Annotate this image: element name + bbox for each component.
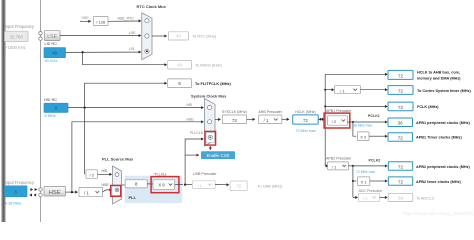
svg-text:Input Frequency: Input Frequency — [5, 24, 36, 29]
svg-text:8 MHz: 8 MHz — [45, 113, 56, 118]
oscillator HSE box — [44, 187, 66, 196]
wire HSI to system clock mux — [68, 107, 201, 109]
wire HSE to prediv — [66, 191, 76, 193]
output box APB2 timer 72 — [388, 177, 412, 185]
bus AHB vertical — [324, 74, 326, 166]
wire system mux output — [215, 118, 218, 120]
svg-text:Enable CSS: Enable CSS — [207, 153, 230, 158]
ADC prescaler dropdown /2 — [358, 193, 379, 201]
To USB value box — [230, 181, 247, 191]
HSE pin arrows out — [30, 188, 33, 191]
svg-text:PLL: PLL — [129, 195, 137, 200]
HSE pin connector circles — [39, 188, 42, 191]
svg-text:APB2 timer clocks (MHz): APB2 timer clocks (MHz) — [416, 180, 461, 184]
HSE input frequency box 8 — [5, 186, 28, 197]
svg-text:72 MHz max: 72 MHz max — [296, 129, 316, 133]
left rail vertical line — [40, 0, 42, 222]
svg-text:To FLITFCLK (MHz): To FLITFCLK (MHz) — [195, 81, 232, 86]
oscillator LSE box — [45, 31, 61, 41]
svg-text:32.768: 32.768 — [10, 35, 24, 40]
svg-text:APB2 peripheral clocks (MHz): APB2 peripheral clocks (MHz) — [416, 165, 471, 169]
wire SYSCLK to AHB prescaler — [247, 118, 253, 120]
svg-text:To RTC (KHz): To RTC (KHz) — [192, 33, 217, 38]
svg-text:/ 1: / 1 — [197, 183, 202, 188]
APB1 prescaler dropdown /2 — [328, 116, 348, 125]
svg-text:40: 40 — [176, 34, 181, 39]
svg-text:72: 72 — [398, 105, 404, 110]
wire AHB to HCLK — [282, 118, 287, 120]
wire branch to X1 — [353, 180, 356, 182]
output box cortex timer 72 — [388, 86, 413, 95]
HCLK value box 72 — [293, 115, 319, 124]
svg-text:LSE: LSE — [129, 31, 136, 35]
PLL mux input HSI radio — [115, 173, 119, 177]
svg-text:APB1 peripheral clocks (MHz): APB1 peripheral clocks (MHz) — [416, 121, 471, 125]
multiplier X1 box — [358, 177, 370, 186]
wire HCLK to bus — [318, 118, 323, 120]
output box PCLK1 36 — [388, 118, 413, 127]
AHB prescaler dropdown /1 — [259, 115, 282, 124]
HSE pin arrows in — [29, 193, 32, 196]
wire HSE stub to /128 — [80, 20, 89, 22]
svg-text:AHB Prescaler: AHB Prescaler — [258, 110, 282, 114]
svg-text:72 MHz max: 72 MHz max — [356, 170, 375, 174]
oscillator HSI box 8 — [44, 103, 68, 112]
svg-text:HSE: HSE — [82, 16, 90, 20]
svg-text:36: 36 — [398, 196, 403, 201]
junction bus FCLK row — [324, 105, 326, 107]
svg-text:USB Prescaler: USB Prescaler — [193, 172, 217, 176]
arrow mux down to Enable CSS — [209, 146, 211, 147]
oscillator LSI box 40 — [44, 48, 66, 58]
PLL container block — [125, 176, 183, 203]
wire PLL mux output — [122, 184, 126, 186]
svg-text:8: 8 — [55, 106, 58, 111]
svg-text:36: 36 — [398, 121, 404, 126]
PLL mux input HSE radio selected — [112, 186, 120, 195]
wire X1 to APB2 timer output — [370, 180, 385, 182]
USB prescaler dropdown /1 disabled — [192, 181, 215, 189]
svg-text:LSI RC: LSI RC — [45, 41, 58, 46]
divider HSE /1 dropdown — [79, 187, 103, 196]
svg-text:X 1: X 1 — [361, 180, 368, 185]
svg-text:72: 72 — [398, 135, 404, 140]
svg-text:/ 1: / 1 — [332, 164, 337, 169]
junction bus cortex row — [324, 89, 326, 91]
svg-text:To USB (MHz): To USB (MHz) — [258, 183, 284, 188]
highlight red box system mux PLLCLK — [205, 131, 216, 145]
output box PCLK2 72 — [388, 162, 412, 171]
SYSCLK value box 72 — [222, 115, 246, 124]
svg-text:72: 72 — [398, 164, 404, 169]
svg-text:APB2 Prescaler: APB2 Prescaler — [326, 156, 352, 160]
svg-text:72: 72 — [398, 73, 404, 78]
junction HSE — [71, 191, 73, 193]
wire X2 to APB1 timer output — [369, 135, 385, 137]
svg-text:HSI: HSI — [187, 103, 193, 107]
wire HSI riser to FLITFCLK — [85, 83, 165, 107]
junction APB1 branch — [352, 121, 354, 123]
wire to Enable CSS button — [185, 154, 197, 156]
wire PLLCLK riser to system clock mux — [185, 139, 201, 185]
left panel edge strip — [1, 0, 6, 222]
wire USB prescaler to To USB box — [215, 184, 227, 186]
output box ADC 36 — [388, 193, 412, 201]
wire HSE riser to system clock mux — [72, 122, 201, 192]
wire /128 to RTC mux — [108, 20, 139, 22]
wire LSE to RTC mux — [60, 35, 139, 37]
svg-text:System Clock Mux: System Clock Mux — [191, 93, 227, 98]
svg-text:72: 72 — [303, 118, 309, 123]
output box HCLK AHB 72 — [388, 70, 413, 79]
wire LSI to IWDG — [83, 52, 165, 64]
wire /2 to PLL mux — [98, 173, 110, 175]
system mux input HSI radio — [208, 105, 212, 109]
svg-text:HCLK (MHz): HCLK (MHz) — [295, 110, 315, 114]
svg-text:FCLK (MHz): FCLK (MHz) — [417, 105, 439, 109]
svg-text:RTC Clock Mux: RTC Clock Mux — [137, 4, 167, 9]
wire bus to cortex prescaler — [325, 89, 332, 91]
wire cortex prescaler to output — [360, 89, 385, 91]
svg-text:36 MHz max: 36 MHz max — [353, 124, 372, 128]
wire RTC mux output — [152, 35, 165, 37]
svg-text:HSE: HSE — [49, 190, 61, 196]
wire ADC prescaler to output — [380, 196, 385, 198]
svg-text:72: 72 — [398, 88, 404, 93]
svg-text:PCLK1: PCLK1 — [368, 114, 380, 118]
svg-text:To IWDG (KHz): To IWDG (KHz) — [195, 62, 223, 67]
wire branch to ADC prescaler — [353, 196, 356, 198]
svg-text:HSE: HSE — [102, 183, 110, 187]
output box APB1 timer 72 — [388, 133, 413, 142]
To RTC value box — [169, 32, 189, 40]
multiplier X2 box — [357, 132, 369, 141]
svg-text:72: 72 — [236, 184, 241, 189]
svg-text:40 KHz: 40 KHz — [45, 58, 58, 63]
svg-text:memory and DMA (MHz): memory and DMA (MHz) — [417, 76, 461, 80]
svg-text:LSE: LSE — [47, 34, 57, 40]
svg-text:40: 40 — [52, 51, 58, 56]
svg-text:HSE_RTC: HSE_RTC — [118, 16, 135, 20]
svg-text:/ 1: / 1 — [264, 118, 269, 123]
wire bus corner to APB2 prescaler — [325, 165, 326, 167]
wire PLL output — [175, 184, 183, 186]
svg-text:PCLK2: PCLK2 — [369, 159, 381, 163]
svg-text:/ 2: / 2 — [332, 119, 337, 124]
PLLMul dropdown X 9 — [153, 180, 175, 190]
cortex prescaler dropdown /1 — [335, 86, 361, 94]
mux RTC trapezoid — [142, 13, 152, 60]
svg-text:To Cortex System timer (MHz): To Cortex System timer (MHz) — [417, 89, 471, 93]
system mux PLLCLK selected radio — [206, 133, 215, 143]
wire APB1 branch to X2 — [353, 122, 356, 136]
PLL input value box 8 — [125, 180, 147, 188]
wire bus to HCLK AHB output — [325, 73, 385, 75]
highlight red box PLLMul — [151, 177, 179, 193]
To IWDG value box — [168, 61, 192, 70]
svg-text:0-1000 KHz: 0-1000 KHz — [4, 45, 26, 50]
svg-text:HSI: HSI — [102, 169, 108, 173]
wire APB2 branch down — [352, 166, 354, 198]
junction PLLCLK — [184, 183, 186, 185]
svg-text:4-16 MHz: 4-16 MHz — [5, 200, 22, 205]
divider HSI /2 box — [86, 170, 98, 179]
wire LSI to RTC mux — [66, 51, 140, 53]
svg-text:/ 128: / 128 — [96, 20, 106, 25]
svg-text:SYSCLK (MHz): SYSCLK (MHz) — [222, 110, 247, 114]
junction APB2 branch — [352, 165, 354, 167]
svg-text:LSI: LSI — [129, 47, 134, 51]
wire APB2 prescaler to PCLK2 — [348, 165, 385, 167]
svg-text:X 2: X 2 — [360, 135, 367, 140]
highlight red box APB1 prescaler — [324, 113, 350, 128]
mux PLL source trapezoid — [113, 166, 122, 204]
svg-text:PLL Source Mux: PLL Source Mux — [102, 157, 134, 162]
svg-text:40: 40 — [177, 62, 182, 67]
svg-text:Input Frequency: Input Frequency — [5, 180, 36, 185]
svg-text:X 9: X 9 — [158, 183, 165, 188]
LSE pin connector circles — [39, 32, 42, 35]
mux system clock trapezoid — [205, 99, 216, 147]
svg-text:https://blog.csdn.net/qq_38410: https://blog.csdn.net/qq_38410730 — [403, 211, 474, 216]
svg-text:ADC Prescaler: ADC Prescaler — [359, 189, 384, 193]
svg-text:/ 2: / 2 — [363, 195, 368, 200]
junction LSI — [81, 51, 83, 53]
highlight red box PLL mux HSE — [111, 185, 121, 196]
svg-text:To ADC1,2: To ADC1,2 — [416, 196, 434, 200]
svg-text:72: 72 — [398, 180, 404, 185]
svg-text:/ 1: / 1 — [84, 190, 89, 195]
svg-text:HSE: HSE — [187, 117, 195, 121]
To FLITFCLK value box — [168, 79, 192, 88]
wire APB1 prescaler to PCLK1 — [348, 121, 385, 123]
divider /128 box — [94, 17, 109, 26]
junction HSI — [83, 106, 85, 108]
RTC mux input LSI radio selected — [145, 49, 149, 53]
wire PLL internal — [147, 183, 153, 185]
wire prediv to PLL mux — [103, 190, 110, 192]
button Enable CSS — [201, 151, 235, 159]
svg-text:PLLCLK: PLLCLK — [190, 131, 204, 135]
svg-text:/ 1: / 1 — [340, 88, 345, 93]
RTC mux input HSE_RTC radio — [145, 19, 149, 23]
wire bus to FCLK output — [325, 105, 385, 107]
LSE input frequency box 32.768 — [5, 31, 29, 41]
APB2 prescaler dropdown /1 — [328, 162, 349, 170]
svg-text:HCLK to AHB bus, core,: HCLK to AHB bus, core, — [417, 71, 460, 75]
svg-text:72: 72 — [232, 118, 238, 123]
system mux input HSE radio — [208, 120, 212, 124]
svg-text:/ 2: / 2 — [89, 172, 94, 177]
svg-text:HSI RC: HSI RC — [44, 97, 57, 102]
RTC mux input LSE radio — [145, 34, 149, 38]
svg-text:8: 8 — [14, 189, 17, 194]
wire PLL to USB prescaler — [185, 184, 192, 186]
output box FCLK 72 — [388, 102, 413, 111]
svg-text:APB1 Timer clocks (MHz): APB1 Timer clocks (MHz) — [416, 136, 462, 140]
wire HSI dropper to PLL /2 — [84, 108, 86, 175]
